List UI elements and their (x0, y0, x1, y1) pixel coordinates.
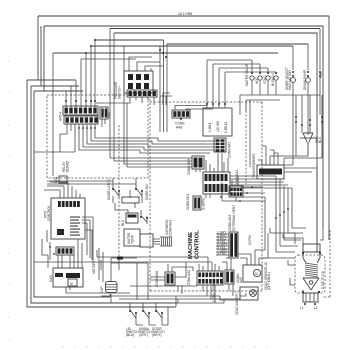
valve contact dots (251, 71, 321, 77)
svg-text:L2: L2 (314, 306, 318, 310)
water temp box (124, 229, 140, 246)
svg-text:8 PNK: 8 PNK (217, 251, 227, 255)
motor control lower connector (56, 247, 74, 255)
labels AA3 stub wires (217, 230, 227, 255)
wire transformer left links (288, 260, 303, 296)
wire top bus (38, 16, 329, 252)
wire valve return bus (240, 72, 320, 165)
transformer upper box (303, 244, 320, 252)
wire BB3 tails (110, 29, 200, 173)
svg-text:CONN AA2: CONN AA2 (187, 270, 191, 286)
junction dots risers (159, 49, 167, 58)
connector AA8 top center (172, 110, 190, 118)
selector switch symbol (141, 210, 147, 224)
transformer output block (303, 293, 318, 302)
wire motor control risers (44, 182, 80, 198)
svg-text:TEMP: TEMP (130, 235, 134, 244)
motor control box (51, 198, 85, 239)
wire AA1 fanout right (230, 176, 306, 252)
switch 3 dots (155, 310, 163, 314)
svg-text:M: M (70, 282, 73, 286)
dashed wire right of AA7 (245, 103, 247, 184)
switch 1 dots (129, 310, 137, 314)
wire AA4 links (222, 100, 265, 201)
svg-text:~ D-VB-TF-CA: ~ D-VB-TF-CA (321, 270, 325, 292)
label MACHINE CONTROL (188, 230, 201, 259)
label LID SWITCH (126, 327, 139, 337)
wire dispenser risers (238, 197, 268, 265)
dashed console bottom rail (150, 290, 262, 292)
pressure switch lower pin row (127, 90, 157, 97)
svg-text:CONN AA7: CONN AA7 (228, 142, 232, 158)
svg-text:18-2 GRN: 18-2 GRN (178, 12, 193, 16)
wire pressure switch risers (129, 40, 167, 132)
wire right mid verticals (296, 95, 322, 158)
svg-text:10 PIN: 10 PIN (248, 235, 252, 245)
transformer output dots (304, 303, 316, 305)
wire switch returns (136, 307, 168, 325)
svg-text:MACHINE: MACHINE (188, 232, 194, 259)
wire bottom center bus (101, 284, 246, 307)
svg-text:(WHT): (WHT) (152, 333, 161, 337)
door latch funnel symbol (300, 133, 316, 156)
selector dots (140, 216, 148, 219)
transformer connector box (257, 165, 284, 179)
lid switch box (203, 108, 232, 136)
svg-text:WATER VALVE: WATER VALVE (245, 64, 249, 86)
junction dots pin tails (78, 127, 96, 129)
bottom switch 3 (156, 303, 162, 325)
svg-text:M: M (255, 272, 258, 276)
svg-text:MOTOR: MOTOR (92, 261, 96, 274)
wire latch tails (115, 203, 135, 213)
svg-text:BOARD: BOARD (65, 160, 69, 172)
connector EE1 (193, 196, 201, 210)
connector AA4 (229, 186, 243, 197)
latch link box (122, 197, 139, 203)
svg-text:DOOR LATCH: DOOR LATCH (107, 179, 111, 200)
lid lock lamp box (240, 287, 258, 300)
svg-text:CONTROL: CONTROL (47, 205, 51, 221)
dots motor control left wires (49, 246, 55, 255)
label DOOR SWITCH (152, 327, 165, 337)
door latch dots right (135, 188, 143, 192)
svg-text:EXTERNAL VENT: EXTERNAL VENT (232, 205, 236, 231)
svg-text:(OPTIONAL): (OPTIONAL) (267, 272, 271, 290)
door latch switch right (130, 178, 142, 203)
wire motor control right stubs (47, 217, 93, 262)
connector AA3-4 row B (64, 116, 98, 124)
dispenser motor box (243, 265, 262, 282)
relay board dashed enclosure (47, 95, 148, 178)
wire to transformer connector (270, 156, 322, 165)
svg-text:L1: L1 (300, 306, 304, 310)
svg-text:1-8B-11: 1-8B-11 (224, 122, 228, 133)
connector AA3 vertical strip (229, 232, 238, 258)
wire AA7 tails from relay board (79, 138, 222, 172)
svg-text:GA3: GA3 (49, 275, 53, 282)
svg-text:BLEACH: BLEACH (271, 73, 275, 86)
svg-text:DOOR SW: DOOR SW (145, 184, 149, 200)
svg-text:CONN EE1: CONN EE1 (186, 193, 190, 210)
machine control console dashed enclosure (150, 99, 262, 291)
connector GA2 (100, 107, 108, 119)
motor box (53, 268, 83, 287)
aux box (140, 234, 153, 247)
svg-text:LID SW: LID SW (216, 121, 220, 132)
transformer terminal pins (302, 252, 321, 293)
wire transformer right dashed (322, 230, 330, 297)
water valve solenoid symbols (250, 76, 311, 83)
right side lamp contacts (295, 116, 323, 126)
svg-text:AA3-4: AA3-4 (59, 112, 63, 121)
capacitor symbol (99, 248, 148, 303)
svg-text:DRAIN PUMP: DRAIN PUMP (303, 70, 307, 90)
timer box small (126, 213, 138, 223)
wire relay bottom rails (47, 181, 136, 184)
svg-text:TRANSFORMER: TRANSFORMER (252, 153, 256, 178)
water valve drops top right (252, 29, 320, 74)
dashed vertical console left (118, 125, 120, 260)
svg-text:BLK: BLK (318, 136, 322, 143)
junction dots AA4 wires (220, 186, 253, 202)
transformer core windings (305, 263, 318, 277)
label UNBALANCE SWITCH (139, 327, 152, 337)
transformer connector pins (259, 169, 282, 175)
svg-text:CONN AA1: CONN AA1 (168, 220, 172, 236)
transformer secondary triangle (303, 278, 319, 290)
scan speckles left edge (8, 60, 11, 342)
door latch switch left (113, 178, 119, 203)
connector AA2 wide (197, 271, 223, 285)
svg-text:(1-GRN): (1-GRN) (202, 198, 206, 210)
wire AA2 AA5 risers (199, 258, 231, 271)
svg-text:CAP: CAP (100, 286, 104, 293)
scan speckles bottom dotted line (62, 346, 268, 347)
svg-text:CONN AA6: CONN AA6 (155, 271, 159, 287)
transformer dashed enclosure (295, 255, 325, 293)
svg-text:COLD WATER T: COLD WATER T (235, 291, 239, 315)
big connector AA1 header (203, 172, 230, 194)
motor M symbol (68, 279, 77, 286)
motor pin row GA3 (55, 273, 80, 278)
svg-text:(BLU): (BLU) (126, 333, 134, 337)
svg-text:1-8B-1: 1-8B-1 (208, 122, 212, 132)
svg-text:HOT: HOT (255, 77, 259, 84)
wire AA1 risers up (206, 158, 228, 198)
svg-text:SWITCH: SWITCH (118, 86, 122, 99)
small inline connector above cap (117, 257, 123, 260)
connector GA1 (54, 176, 67, 183)
bottom switch 2 (143, 303, 149, 325)
wire AA6 loops (150, 262, 193, 280)
junction dots pressure switch drops (65, 39, 96, 102)
svg-text:AA8: AA8 (176, 126, 182, 130)
wire motor control to motor (42, 230, 92, 268)
wire transformer connector tails (258, 146, 317, 252)
wire lid switch risers (207, 60, 276, 108)
motor control inner connector (57, 229, 64, 235)
wire left bus (27, 16, 178, 307)
svg-text:BLU: BLU (121, 219, 125, 226)
wire pressure switch pin tails (34, 119, 105, 152)
motor control inner stub labels (70, 217, 80, 236)
wire AA8 risers (160, 93, 213, 110)
svg-text:COLD: COLD (263, 74, 267, 84)
door latch dots left (112, 188, 120, 192)
pressure switch box (124, 71, 153, 93)
junction dots lid risers (206, 103, 226, 105)
svg-text:(GRY): (GRY) (139, 333, 148, 337)
connector AA7 (214, 138, 226, 152)
wire AA3 stubs (216, 234, 229, 255)
bottom switch 1 (130, 303, 136, 325)
connector AA5 (225, 270, 234, 284)
junction dot AA8 (180, 118, 182, 120)
wire drops to pressure switch connector (27, 40, 154, 176)
connector AA6 (165, 272, 175, 285)
junction dots AA1 fanout (275, 208, 289, 219)
connector AA3-4 row A (63, 106, 98, 115)
wire bottom bus (34, 287, 130, 297)
harness hatch connector (153, 237, 172, 246)
pressure switch contact grid (128, 74, 149, 89)
wire console bottom links (34, 250, 212, 271)
connector BB3 (192, 156, 204, 169)
transformer primary (303, 252, 320, 263)
wire transformer feeds (262, 228, 323, 258)
svg-text:CONTROL: CONTROL (195, 230, 201, 259)
switch 2 dots (142, 310, 150, 314)
svg-text:AA5: AA5 (239, 277, 243, 283)
svg-text:WAX MOTOR: WAX MOTOR (288, 69, 292, 90)
